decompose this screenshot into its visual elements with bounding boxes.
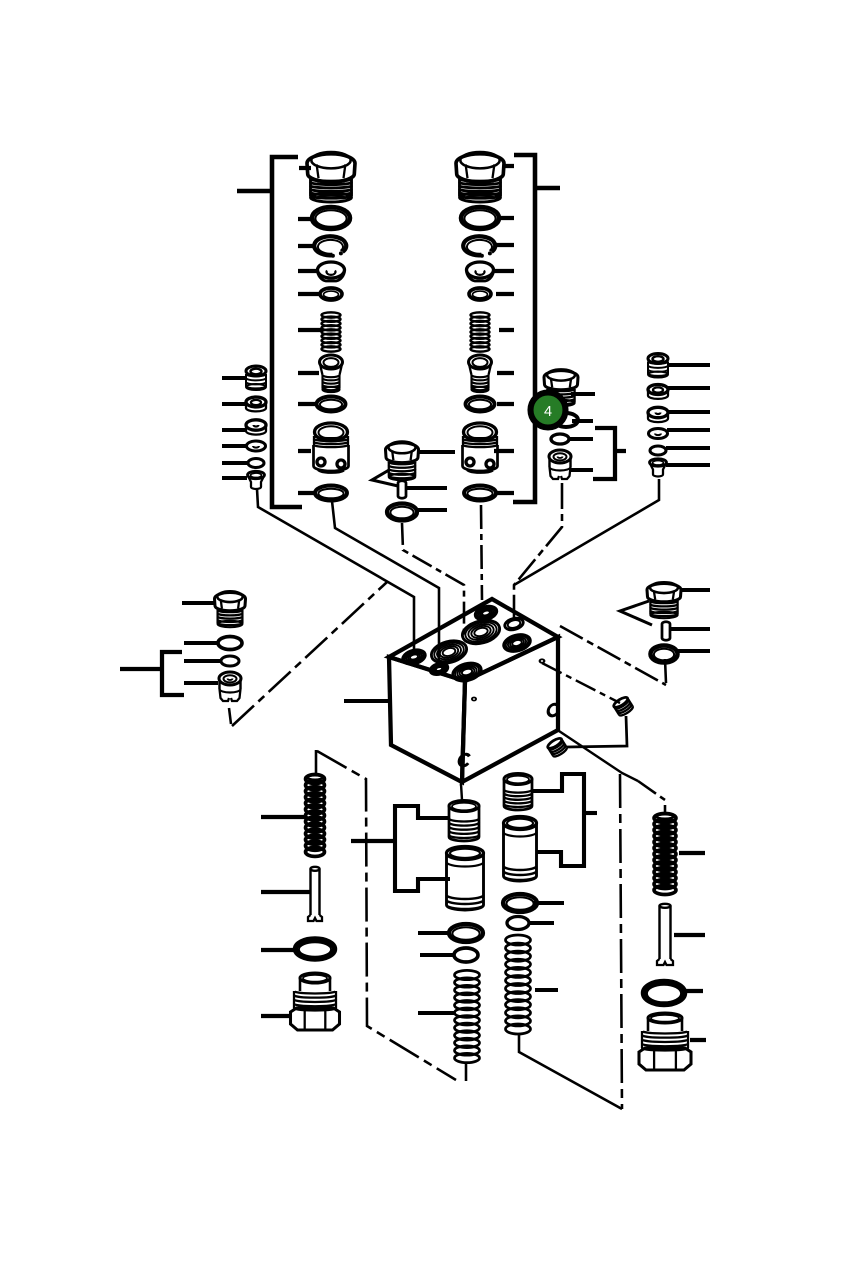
svg-text:4: 4 — [544, 404, 552, 420]
